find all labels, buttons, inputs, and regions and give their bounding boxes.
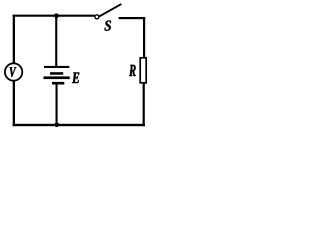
battery E plate 1 (long top) [44, 66, 69, 68]
switch label S [105, 21, 112, 31]
wire top-right horizontal (switch to right corner) [119, 17, 146, 19]
switch S pivot circle [95, 15, 99, 19]
wire battery bottom vertical [56, 85, 58, 126]
battery E plate 3 (long) [44, 76, 70, 79]
wire right vertical lower (resistor down to bottom corner) [143, 84, 145, 127]
voltmeter V1 circle [5, 63, 22, 80]
node bottom junction [55, 123, 60, 128]
resistor R body [140, 58, 146, 83]
switch S lever [99, 3, 122, 17]
voltmeter label V [10, 67, 17, 77]
wire bottom horizontal [13, 124, 145, 126]
battery E plate 4 (short) [52, 82, 64, 85]
wire left vertical upper (corner down to voltmeter) [13, 15, 15, 63]
wire left vertical lower (voltmeter down to bottom corner) [13, 81, 15, 127]
wire top-left horizontal (left corner to switch) [13, 15, 95, 17]
wire right vertical upper (corner down to resistor) [143, 17, 145, 58]
resistor label R [129, 65, 136, 76]
wire battery top vertical [55, 16, 57, 68]
node top junction [54, 13, 59, 18]
battery value label E [72, 73, 79, 84]
battery E plate 2 (short) [50, 72, 63, 75]
